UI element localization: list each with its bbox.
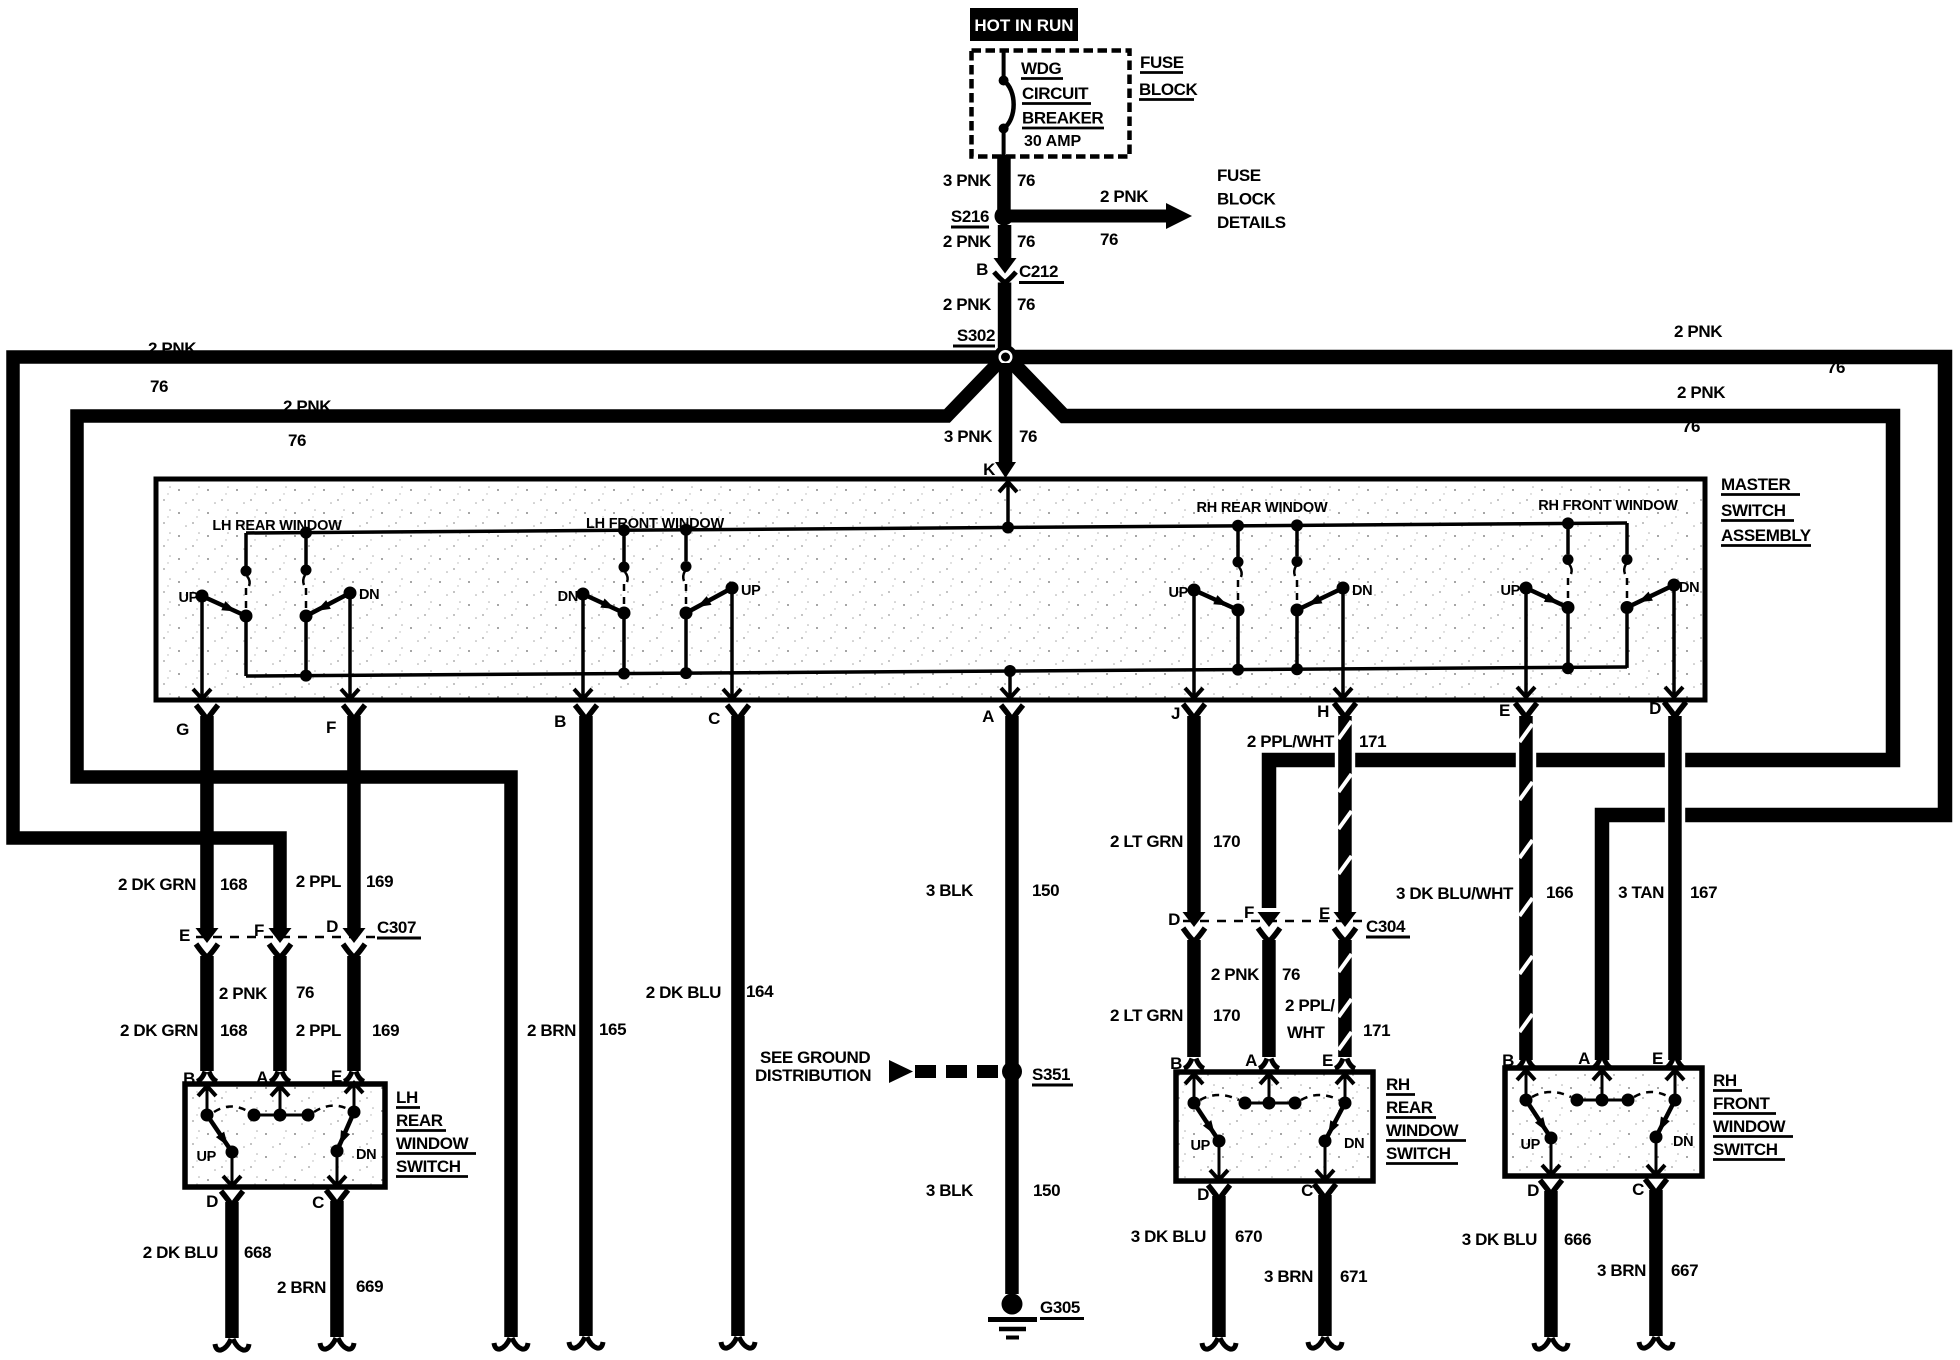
svg-text:3 BLK: 3 BLK — [926, 881, 974, 900]
wire RH rear UP to pin J — [1185, 590, 1203, 698]
svg-text:3 BLK: 3 BLK — [926, 1181, 974, 1200]
label RH FRONT WINDOW SWITCH — [1713, 1071, 1793, 1160]
svg-text:76: 76 — [296, 983, 314, 1002]
master switch assembly box — [156, 479, 1705, 700]
svg-text:WINDOW: WINDOW — [1713, 1117, 1787, 1136]
svg-text:LH REAR WINDOW: LH REAR WINDOW — [212, 518, 342, 534]
RH front switch internal contacts — [1517, 1070, 1684, 1107]
label 2 DK GRN 168 lower — [120, 1021, 247, 1040]
svg-text:2 PNK: 2 PNK — [148, 339, 197, 358]
svg-text:76: 76 — [1682, 417, 1700, 436]
RH rear switch internal contacts — [1185, 1074, 1354, 1110]
svg-text:669: 669 — [356, 1277, 383, 1296]
svg-text:30 AMP: 30 AMP — [1024, 133, 1082, 150]
splice S216 — [951, 207, 1014, 228]
wire 2 LT GRN 170 C304 to RH rear switch pin B — [1110, 940, 1240, 1073]
wire 2 PNK right upper run to RH front — [1006, 357, 1945, 1060]
svg-text:666: 666 — [1564, 1230, 1591, 1249]
svg-text:WDG: WDG — [1021, 59, 1062, 78]
svg-text:DN: DN — [359, 587, 379, 603]
svg-text:76: 76 — [1282, 965, 1300, 984]
svg-text:DN: DN — [1344, 1136, 1364, 1152]
wire 2 PNK 76 C212 to S302 — [943, 283, 1035, 353]
pin G connector — [176, 705, 218, 739]
svg-text:WINDOW: WINDOW — [396, 1134, 470, 1153]
label LH FRONT WINDOW — [586, 516, 724, 532]
svg-text:76: 76 — [150, 377, 168, 396]
pin A connector — [982, 705, 1023, 726]
RH front switch UP blade — [1520, 1100, 1557, 1153]
svg-text:3 PNK: 3 PNK — [943, 171, 992, 190]
switch RH front window DN blade — [1627, 579, 1699, 608]
svg-text:E: E — [1499, 701, 1510, 720]
svg-text:76: 76 — [1019, 427, 1037, 446]
svg-text:LH FRONT WINDOW: LH FRONT WINDOW — [586, 516, 724, 532]
switch LH front window DN blade — [558, 588, 624, 614]
svg-text:S216: S216 — [951, 207, 989, 226]
switch LH rear window DN blade — [306, 587, 379, 617]
svg-text:S302: S302 — [957, 326, 995, 345]
svg-text:S351: S351 — [1032, 1065, 1070, 1084]
svg-text:BLOCK: BLOCK — [1139, 80, 1199, 99]
pin J connector — [1171, 704, 1205, 723]
svg-text:LH: LH — [396, 1088, 418, 1107]
LH rear switch DN blade — [331, 1112, 377, 1163]
label RH REAR WINDOW SWITCH — [1386, 1075, 1466, 1164]
svg-text:168: 168 — [220, 1021, 247, 1040]
svg-text:165: 165 — [599, 1020, 626, 1039]
wire 2 BRN 669 pin C to bottom — [277, 1190, 383, 1349]
svg-text:D: D — [1527, 1181, 1539, 1200]
svg-text:668: 668 — [244, 1243, 271, 1262]
svg-text:F: F — [1244, 903, 1254, 922]
wire RH rear DN to pin H — [1334, 588, 1352, 698]
wire 2 PPL WHT 171 C304 to RH rear switch pin E — [1285, 940, 1390, 1070]
svg-text:WHT: WHT — [1287, 1023, 1326, 1042]
svg-text:170: 170 — [1213, 832, 1240, 851]
svg-text:DN: DN — [356, 1147, 376, 1163]
wire 2 PNK 76 C307 to LH rear switch pin A — [219, 956, 314, 1087]
svg-text:2 DK GRN: 2 DK GRN — [120, 1021, 198, 1040]
svg-text:C: C — [312, 1193, 324, 1212]
svg-text:150: 150 — [1033, 1181, 1060, 1200]
svg-text:2 LT GRN: 2 LT GRN — [1110, 832, 1183, 851]
svg-text:SWITCH: SWITCH — [1721, 501, 1786, 520]
svg-text:UP: UP — [196, 1149, 216, 1165]
svg-text:2 PPL: 2 PPL — [296, 1021, 341, 1040]
connector C307 — [179, 917, 421, 958]
svg-text:2 BRN: 2 BRN — [277, 1278, 326, 1297]
svg-text:3 BRN: 3 BRN — [1264, 1267, 1313, 1286]
svg-text:2 PPL/WHT: 2 PPL/WHT — [1247, 732, 1335, 751]
svg-text:BLOCK: BLOCK — [1217, 190, 1277, 209]
svg-text:76: 76 — [1100, 230, 1118, 249]
svg-text:2 PPL: 2 PPL — [296, 872, 341, 891]
svg-text:76: 76 — [288, 431, 306, 450]
svg-text:SEE GROUND: SEE GROUND — [760, 1048, 870, 1067]
svg-text:169: 169 — [372, 1021, 399, 1040]
switch LH rear window UP blade — [178, 590, 246, 617]
wire 2 PNK right lower run to C304 — [1011, 361, 1893, 908]
splice S302 label — [953, 326, 995, 346]
svg-text:FUSE: FUSE — [1140, 53, 1184, 72]
wire 3 PNK 76 S302 to K — [944, 363, 1037, 479]
wire 2 PNK 76 C304 to RH rear switch pin A — [1211, 940, 1300, 1070]
wire 2 DK BLU 668 pin D to bottom — [143, 1191, 271, 1350]
wire 2 PNK 76 S216 to C212 — [943, 225, 1035, 259]
pin H connector — [1317, 702, 1356, 721]
svg-text:REAR: REAR — [396, 1111, 443, 1130]
svg-text:2 DK BLU: 2 DK BLU — [143, 1243, 218, 1262]
svg-text:E: E — [1652, 1049, 1663, 1068]
svg-text:RH REAR WINDOW: RH REAR WINDOW — [1197, 500, 1328, 516]
svg-text:WINDOW: WINDOW — [1386, 1121, 1460, 1140]
svg-text:UP: UP — [1168, 585, 1188, 601]
wire LH rear switch UP to pin D — [223, 1152, 241, 1186]
switch LH front window contacts — [618, 524, 693, 680]
wire 2 LT GRN 170 pin J to C304 — [1110, 716, 1240, 913]
svg-text:670: 670 — [1235, 1227, 1262, 1246]
svg-text:3 DK BLU: 3 DK BLU — [1462, 1230, 1537, 1249]
label MASTER SWITCH ASSEMBLY — [1721, 475, 1812, 546]
svg-text:C304: C304 — [1366, 917, 1406, 936]
wire RH front DN to pin D — [1665, 585, 1683, 697]
svg-text:B: B — [976, 260, 988, 279]
RH front switch DN blade — [1650, 1100, 1694, 1150]
svg-text:2 PNK: 2 PNK — [1100, 187, 1149, 206]
svg-text:2 PNK: 2 PNK — [1677, 383, 1726, 402]
svg-text:167: 167 — [1690, 883, 1717, 902]
pin D connector — [1649, 699, 1686, 718]
svg-text:J: J — [1171, 704, 1180, 723]
svg-text:C: C — [708, 709, 720, 728]
label 2 PNK 76 lower left — [283, 397, 332, 450]
svg-text:H: H — [1317, 702, 1329, 721]
svg-text:2 LT GRN: 2 LT GRN — [1110, 1006, 1183, 1025]
svg-text:2 DK BLU: 2 DK BLU — [646, 983, 721, 1002]
svg-text:RH: RH — [1713, 1071, 1737, 1090]
svg-text:76: 76 — [1017, 232, 1035, 251]
svg-text:FUSE: FUSE — [1217, 166, 1261, 185]
svg-text:UP: UP — [741, 583, 761, 599]
svg-text:UP: UP — [1500, 583, 1520, 599]
svg-text:164: 164 — [746, 982, 774, 1001]
power source tag HOT IN RUN — [970, 8, 1078, 41]
splice S351 — [1002, 1062, 1073, 1086]
svg-text:3 TAN: 3 TAN — [1618, 883, 1664, 902]
svg-text:BREAKER: BREAKER — [1022, 109, 1103, 128]
wire RH front UP to pin E — [1517, 588, 1535, 697]
svg-text:DN: DN — [1352, 583, 1372, 599]
switch RH rear window DN blade — [1297, 582, 1372, 611]
svg-text:UP: UP — [178, 590, 198, 606]
pin F connector — [326, 705, 365, 737]
circuit breaker CB symbol — [999, 52, 1014, 156]
svg-text:RH FRONT WINDOW: RH FRONT WINDOW — [1538, 498, 1678, 514]
svg-text:3 BRN: 3 BRN — [1597, 1261, 1646, 1280]
svg-text:2 BRN: 2 BRN — [527, 1021, 576, 1040]
switch LH rear window contacts — [240, 527, 313, 682]
svg-text:CIRCUIT: CIRCUIT — [1022, 84, 1089, 103]
svg-text:2 PNK: 2 PNK — [943, 295, 992, 314]
svg-text:E: E — [1319, 904, 1330, 923]
svg-text:150: 150 — [1032, 881, 1059, 900]
svg-text:171: 171 — [1363, 1021, 1390, 1040]
ground G305 — [988, 1294, 1084, 1338]
svg-text:HOT IN RUN: HOT IN RUN — [974, 16, 1073, 35]
label 2 PPL 169 lower — [296, 1021, 399, 1040]
wire 3 PNK 76 breaker to S216 — [997, 155, 1011, 209]
svg-text:3 DK BLU: 3 DK BLU — [1131, 1227, 1206, 1246]
label 2 PNK 76 upper left — [148, 339, 197, 396]
svg-text:FRONT: FRONT — [1713, 1094, 1771, 1113]
svg-text:SWITCH: SWITCH — [396, 1157, 461, 1176]
wire LH rear switch DN to pin C — [328, 1151, 346, 1186]
svg-text:G305: G305 — [1040, 1298, 1080, 1317]
wire 2 DK BLU 164 pin C to bottom — [646, 716, 774, 1348]
wire LH rear DN to pin F — [341, 593, 359, 699]
label WDG CIRCUIT BREAKER 30 AMP — [1021, 59, 1104, 150]
wire LH front DN to pin B — [574, 594, 592, 699]
svg-text:166: 166 — [1546, 883, 1573, 902]
RH rear switch UP blade — [1190, 1103, 1225, 1154]
wire 3 DK BLU 670 pin D to bottom — [1131, 1185, 1262, 1349]
svg-text:A: A — [982, 707, 994, 726]
wire 3 TAN 167 pin D to RH front switch pin E — [1618, 716, 1717, 1069]
wire 3 BRN 671 pin C to bottom — [1264, 1181, 1367, 1348]
wire 2 BRN 165 pin B to bottom — [527, 716, 626, 1348]
svg-text:DISTRIBUTION: DISTRIBUTION — [755, 1066, 871, 1085]
svg-text:2 PNK: 2 PNK — [1211, 965, 1260, 984]
wire RH rear switch UP to pin D — [1210, 1141, 1228, 1180]
svg-text:A: A — [1245, 1051, 1257, 1070]
RH front window switch box — [1505, 1068, 1702, 1176]
svg-text:B: B — [554, 712, 566, 731]
svg-text:K: K — [983, 460, 996, 479]
pin C connector — [708, 705, 749, 728]
RH rear switch DN blade — [1319, 1103, 1365, 1152]
svg-text:D: D — [206, 1192, 218, 1211]
wire 3 DK BLU WHT 166 pin E to RH front switch pin B — [1396, 716, 1573, 1070]
wire 2 PNK 76 arrow to fuse block details — [1010, 187, 1192, 249]
svg-text:E: E — [179, 926, 190, 945]
wire RH front switch DN to pin C — [1647, 1137, 1665, 1175]
wire dashed to ground distribution — [889, 1060, 1006, 1083]
label LH REAR WINDOW — [212, 518, 342, 534]
RH rear window switch box — [1176, 1072, 1373, 1181]
label RH FRONT WINDOW — [1538, 498, 1678, 514]
wire 2 PPL WHT 171 pin H to C304 — [1247, 716, 1386, 913]
svg-text:168: 168 — [220, 875, 247, 894]
fuse block dashed outline — [972, 51, 1130, 157]
svg-text:RH: RH — [1386, 1075, 1410, 1094]
wire 2 PPL 169 pin F to C307 — [296, 716, 393, 929]
wire LH front UP to pin C — [723, 588, 741, 699]
switch RH rear window contacts — [1232, 519, 1304, 675]
svg-text:F: F — [254, 921, 264, 940]
LH rear switch internal contacts — [198, 1083, 363, 1122]
svg-text:UP: UP — [1190, 1138, 1210, 1154]
pin K entry arrow — [999, 482, 1017, 534]
svg-text:C: C — [1301, 1181, 1313, 1200]
svg-text:SWITCH: SWITCH — [1386, 1144, 1451, 1163]
wire RH rear switch DN to pin C — [1316, 1141, 1334, 1180]
svg-text:MASTER: MASTER — [1721, 475, 1791, 494]
svg-text:G: G — [176, 720, 189, 739]
svg-text:2 PNK: 2 PNK — [1674, 322, 1723, 341]
LH rear window switch box — [185, 1084, 385, 1187]
label RH REAR WINDOW — [1197, 500, 1328, 516]
svg-text:2 PNK: 2 PNK — [219, 984, 268, 1003]
svg-text:667: 667 — [1671, 1261, 1698, 1280]
label FUSE BLOCK — [1139, 53, 1199, 100]
svg-text:ASSEMBLY: ASSEMBLY — [1721, 526, 1812, 545]
wire pin A from bottom bus — [1001, 665, 1019, 698]
label 2 PNK 76 lower right — [1677, 383, 1726, 436]
svg-text:C307: C307 — [377, 918, 416, 937]
wire 2 DK GRN 168 pin G to C307 — [118, 716, 247, 929]
label 2 PNK 76 upper right — [1674, 322, 1845, 377]
wire 2 PNK continuation bottom fork — [494, 1338, 528, 1349]
svg-text:D: D — [326, 917, 338, 936]
svg-text:D: D — [1168, 910, 1180, 929]
svg-text:DN: DN — [1679, 580, 1699, 596]
wire 2 PPL 169 C307 to LH rear switch pin E — [331, 956, 364, 1086]
wire 3 BLK 150 pin A to G305 — [926, 716, 1060, 1294]
svg-text:170: 170 — [1213, 1006, 1240, 1025]
pin B connector — [554, 705, 597, 731]
switch RH front window UP blade — [1500, 582, 1568, 608]
svg-text:3 PNK: 3 PNK — [944, 427, 993, 446]
pin E connector — [1499, 701, 1537, 720]
svg-text:C: C — [1632, 1180, 1644, 1199]
svg-text:2 PPL/: 2 PPL/ — [1285, 996, 1335, 1015]
wire 2 PNK left lower run to bottom — [77, 361, 1000, 1337]
switch LH front window UP blade — [686, 582, 761, 614]
svg-text:76: 76 — [1017, 295, 1035, 314]
label SEE GROUND DISTRIBUTION — [755, 1048, 871, 1085]
svg-text:F: F — [326, 718, 336, 737]
svg-text:76: 76 — [1017, 171, 1035, 190]
wire 3 DK BLU 666 pin D to bottom — [1462, 1180, 1591, 1349]
svg-text:SWITCH: SWITCH — [1713, 1140, 1778, 1159]
connector C304 — [1168, 903, 1410, 942]
svg-text:3 DK BLU/WHT: 3 DK BLU/WHT — [1396, 884, 1514, 903]
label FUSE BLOCK DETAILS — [1217, 166, 1286, 232]
wire 2 PNK 76 to RH front switch pin A fork — [1578, 1049, 1612, 1069]
splice S302 node — [994, 345, 1018, 369]
svg-text:171: 171 — [1359, 732, 1386, 751]
svg-text:A: A — [1578, 1049, 1590, 1068]
svg-text:D: D — [1649, 699, 1661, 718]
svg-text:2 DK GRN: 2 DK GRN — [118, 875, 196, 894]
label 3 PNK 76 — [943, 171, 1035, 190]
svg-text:UP: UP — [1520, 1137, 1540, 1153]
svg-text:D: D — [1197, 1185, 1209, 1204]
wire LH rear UP to pin G — [193, 596, 211, 699]
svg-text:DN: DN — [558, 589, 578, 605]
connector C212 — [976, 258, 1064, 283]
svg-text:REAR: REAR — [1386, 1098, 1433, 1117]
svg-text:DN: DN — [1673, 1134, 1693, 1150]
LH rear switch UP blade — [196, 1115, 238, 1165]
svg-text:169: 169 — [366, 872, 393, 891]
wire internal top bus — [246, 523, 1627, 533]
svg-text:76: 76 — [1827, 358, 1845, 377]
svg-text:E: E — [1322, 1051, 1333, 1070]
svg-text:671: 671 — [1340, 1267, 1367, 1286]
svg-text:DETAILS: DETAILS — [1217, 213, 1286, 232]
wire internal bottom bus — [246, 667, 1627, 676]
svg-text:C212: C212 — [1019, 262, 1058, 281]
svg-text:2 PNK: 2 PNK — [283, 397, 332, 416]
svg-text:2 PNK: 2 PNK — [943, 232, 992, 251]
wire 3 BRN 667 pin C to bottom — [1597, 1179, 1698, 1348]
switch RH front window contacts — [1562, 517, 1634, 674]
wire RH front switch UP to pin D — [1542, 1138, 1560, 1175]
switch RH rear window UP blade — [1168, 584, 1238, 611]
wire 2 DK GRN 168 C307 to LH rear switch pin B — [183, 956, 217, 1088]
label LH REAR WINDOW SWITCH — [396, 1088, 476, 1177]
wire 2 PNK left upper run to C307 — [13, 357, 1005, 928]
